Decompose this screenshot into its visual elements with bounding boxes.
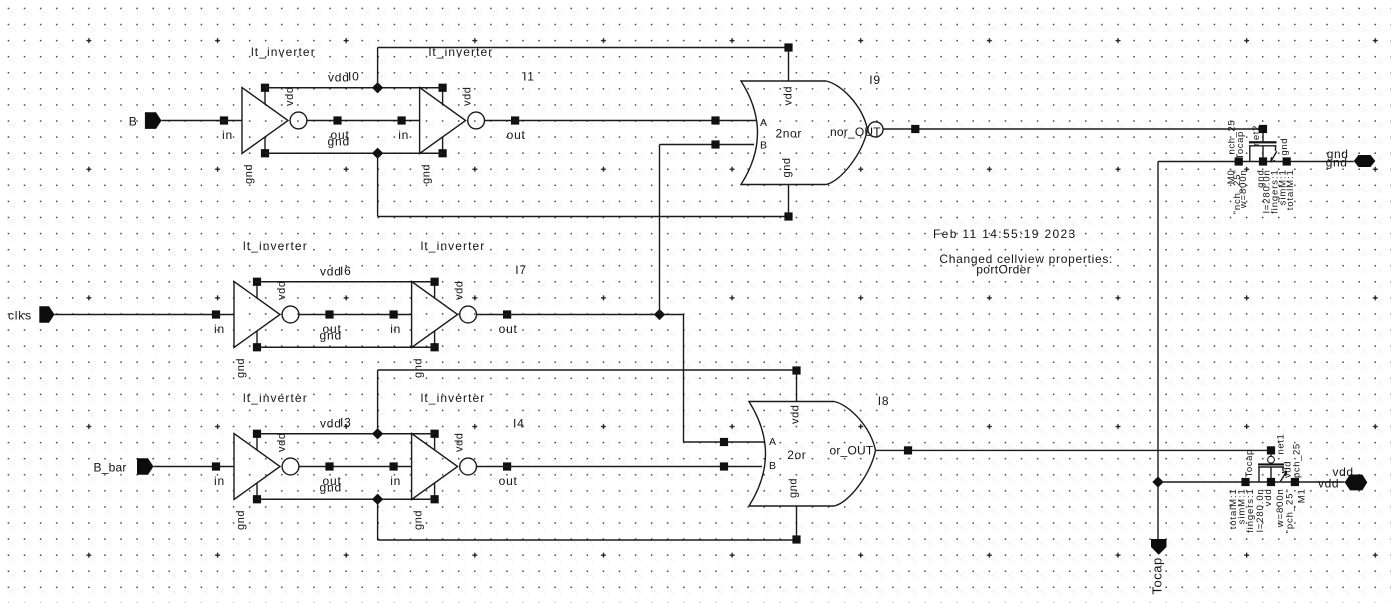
svg-text:net1: net1 xyxy=(1276,434,1287,455)
svg-text:gnd: gnd xyxy=(1279,138,1290,156)
svg-text:vdd: vdd xyxy=(1263,488,1274,506)
svg-text:lt_inverter: lt_inverter xyxy=(421,239,486,253)
svg-text:I4: I4 xyxy=(513,417,525,431)
svg-text:gnd: gnd xyxy=(421,164,433,184)
svg-text:in: in xyxy=(214,322,225,336)
svg-text:in: in xyxy=(214,474,225,488)
svg-text:A: A xyxy=(760,117,767,129)
svg-text:I1: I1 xyxy=(523,70,535,84)
svg-text:vdd: vdd xyxy=(276,432,288,452)
svg-text:vdd: vdd xyxy=(1318,477,1339,491)
svg-text:I9: I9 xyxy=(869,73,881,87)
svg-text:in: in xyxy=(390,474,401,488)
svg-text:vdd: vdd xyxy=(790,404,802,424)
svg-text:clks: clks xyxy=(8,309,32,323)
svg-text:gnd: gnd xyxy=(235,510,247,530)
svg-text:gnd: gnd xyxy=(413,358,425,378)
svg-text:I6: I6 xyxy=(340,264,352,278)
svg-text:out: out xyxy=(507,128,526,142)
svg-text:A: A xyxy=(769,436,776,448)
svg-text:B: B xyxy=(760,140,767,152)
svg-text:gnd: gnd xyxy=(320,481,342,495)
svg-text:I0: I0 xyxy=(348,70,360,84)
svg-text:vdd: vdd xyxy=(783,86,795,106)
svg-text:out: out xyxy=(499,474,518,488)
svg-text:lt_inverter: lt_inverter xyxy=(243,239,308,253)
svg-text:gnd: gnd xyxy=(413,510,425,530)
svg-text:in: in xyxy=(390,322,401,336)
svg-text:vdd: vdd xyxy=(454,432,466,452)
svg-text:"pch_25": "pch_25" xyxy=(1285,488,1296,533)
svg-text:gnd: gnd xyxy=(320,329,342,343)
svg-text:or_OUT: or_OUT xyxy=(830,444,874,458)
svg-text:vdd: vdd xyxy=(284,86,296,106)
svg-text:totalM:1: totalM:1 xyxy=(1285,169,1296,210)
svg-text:gnd: gnd xyxy=(235,358,247,378)
svg-text:pch_25: pch_25 xyxy=(1292,443,1303,478)
svg-text:w=800n: w=800n xyxy=(1238,169,1249,209)
svg-text:B_bar: B_bar xyxy=(94,461,127,475)
svg-text:portOrder: portOrder xyxy=(976,263,1031,277)
svg-text:B: B xyxy=(769,460,776,472)
svg-text:gnd: gnd xyxy=(787,478,799,498)
svg-text:in: in xyxy=(222,128,233,142)
svg-text:gnd: gnd xyxy=(328,135,350,149)
svg-text:gnd: gnd xyxy=(1326,156,1348,170)
svg-text:I7: I7 xyxy=(515,263,527,277)
svg-text:gnd: gnd xyxy=(243,164,255,184)
svg-text:Tocap: Tocap xyxy=(1235,131,1246,159)
svg-text:2or: 2or xyxy=(787,448,806,462)
svg-text:vdd: vdd xyxy=(320,417,342,431)
svg-text:gnd: gnd xyxy=(781,157,793,177)
svg-text:lt_inverter: lt_inverter xyxy=(421,391,486,405)
svg-text:vdd: vdd xyxy=(454,280,466,300)
svg-text:vdd: vdd xyxy=(320,265,342,279)
svg-text:vdd: vdd xyxy=(462,86,474,106)
svg-text:I3: I3 xyxy=(340,416,352,430)
svg-text:B: B xyxy=(129,115,138,129)
svg-text:lt_inverter: lt_inverter xyxy=(251,45,316,59)
svg-text:net2: net2 xyxy=(1251,125,1262,146)
svg-text:M1: M1 xyxy=(1297,488,1308,503)
svg-text:in: in xyxy=(398,128,409,142)
svg-text:Tocap: Tocap xyxy=(1244,449,1255,477)
svg-text:I8: I8 xyxy=(878,394,890,408)
svg-text:nor_OUT: nor_OUT xyxy=(830,125,881,139)
svg-text:vdd: vdd xyxy=(328,71,350,85)
svg-text:2nor: 2nor xyxy=(776,127,802,141)
svg-text:Feb 11 14:55:19 2023: Feb 11 14:55:19 2023 xyxy=(933,227,1077,241)
svg-text:lt_inverter: lt_inverter xyxy=(243,391,308,405)
svg-text:out: out xyxy=(499,322,518,336)
svg-text:Tocap: Tocap xyxy=(1150,557,1165,594)
svg-text:vdd: vdd xyxy=(276,280,288,300)
